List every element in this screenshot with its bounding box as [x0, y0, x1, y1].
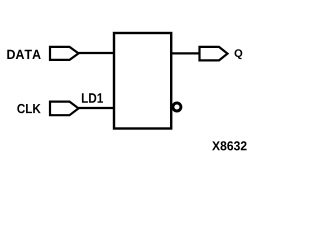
- latch block LD1: [114, 33, 171, 129]
- figure number X8632: [212, 141, 247, 150]
- label CLK: [17, 104, 40, 113]
- label DATA: [7, 50, 40, 59]
- inverted pin bubble: [173, 103, 181, 111]
- wire DATA pad to block: [79, 52, 115, 54]
- label LD1: [82, 93, 103, 102]
- input pad DATA: [50, 47, 79, 60]
- wire CLK pad to block: [79, 107, 115, 109]
- output pad Q: [200, 47, 228, 61]
- input pad CLK: [50, 102, 79, 116]
- label Q: [235, 49, 243, 59]
- wire block to Q pad: [171, 52, 200, 54]
